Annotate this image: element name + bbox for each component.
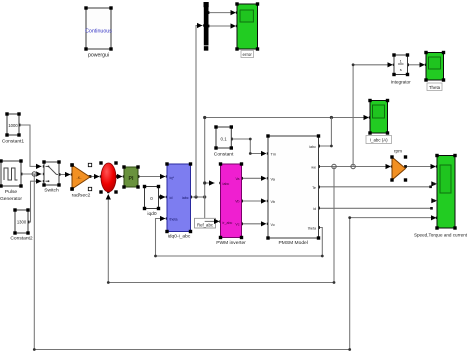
svg-text:iqd0: iqd0 — [147, 211, 157, 217]
svg-text:idq0-i_abc: idq0-i_abc — [168, 234, 191, 240]
svg-text:1300: 1300 — [17, 220, 27, 225]
svg-text:error: error — [243, 52, 253, 57]
svg-text:PWM inverter: PWM inverter — [216, 240, 246, 246]
svg-text:Tm: Tm — [271, 153, 276, 157]
svg-text:Te: Te — [312, 186, 316, 190]
svg-text:Integrator: Integrator — [391, 80, 412, 85]
svg-text:id: id — [170, 196, 173, 200]
svg-text:powergui: powergui — [88, 53, 109, 59]
svg-text:Generator: Generator — [0, 196, 22, 202]
svg-text:0.1: 0.1 — [221, 137, 228, 142]
svg-text:Pulse: Pulse — [5, 189, 18, 195]
svg-text:s: s — [400, 67, 402, 72]
svg-text:-K-: -K- — [76, 176, 82, 180]
svg-text:theta: theta — [308, 227, 317, 231]
svg-text:Switch: Switch — [44, 188, 59, 194]
svg-text:0: 0 — [150, 196, 153, 201]
svg-text:Vc: Vc — [235, 223, 239, 227]
svg-text:PMSM Model: PMSM Model — [279, 240, 308, 246]
svg-text:PI: PI — [129, 176, 134, 182]
svg-text:Speed,Torque and current: Speed,Torque and current — [414, 233, 468, 238]
svg-text:iabc: iabc — [182, 196, 189, 200]
svg-text:theta: theta — [170, 218, 178, 222]
svg-text:we: we — [311, 166, 316, 170]
svg-text:ir_abc: ir_abc — [223, 221, 233, 225]
svg-text:Constant2: Constant2 — [10, 236, 33, 242]
svg-text:Vb: Vb — [271, 200, 276, 204]
svg-text:rpm: rpm — [394, 149, 402, 154]
svg-text:1000: 1000 — [8, 123, 18, 128]
svg-text:I_abc (A): I_abc (A) — [370, 138, 388, 143]
svg-text:Ref_abc: Ref_abc — [197, 222, 214, 227]
svg-text:Constant1: Constant1 — [2, 139, 25, 145]
svg-text:id: id — [313, 207, 316, 211]
svg-text:iabc: iabc — [223, 182, 230, 186]
svg-text:Theta: Theta — [429, 85, 441, 90]
svg-text:iq*: iq* — [170, 176, 175, 180]
svg-text:rad/sec2: rad/sec2 — [72, 193, 91, 199]
svg-text:Vc: Vc — [271, 223, 276, 227]
svg-text:Constant: Constant — [214, 152, 234, 158]
svg-text:iabc: iabc — [309, 145, 316, 149]
svg-text:Vb: Vb — [235, 200, 239, 204]
svg-text:Va: Va — [235, 177, 239, 181]
svg-text:Continuous: Continuous — [85, 29, 112, 35]
